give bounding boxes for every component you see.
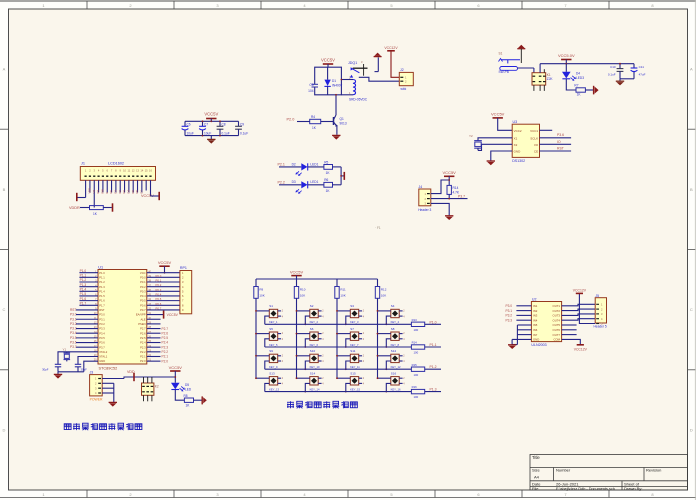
- LED D5: [171, 383, 180, 390]
- svg-text:P3.3: P3.3: [99, 327, 105, 331]
- wire: [147, 272, 180, 274]
- svg-text:KEY_8: KEY_8: [391, 343, 400, 347]
- wire: [194, 399, 202, 401]
- svg-text:P2.3: P2.3: [162, 345, 169, 349]
- wire column: [296, 298, 298, 378]
- svg-text:P2.0: P2.0: [287, 117, 295, 121]
- wire pin stubs: [378, 333, 391, 335]
- wire stub: [147, 318, 161, 320]
- svg-text:Size: Size: [532, 468, 541, 473]
- svg-text:R6: R6: [324, 178, 328, 182]
- svg-text:X1: X1: [514, 136, 518, 140]
- svg-text:D2: D2: [292, 162, 296, 166]
- capacitor C2 30pF: [75, 363, 81, 365]
- svg-text:P0.2: P0.2: [140, 285, 146, 289]
- capacitor C11 47uF: [633, 64, 635, 68]
- svg-text:R16: R16: [412, 385, 418, 389]
- wire GND: [491, 151, 512, 161]
- power bar / net VCC5V: [163, 311, 165, 319]
- svg-text:· F1: · F1: [375, 226, 381, 230]
- svg-text:JDQ1: JDQ1: [348, 61, 357, 65]
- ground: [508, 344, 516, 346]
- svg-text:P0.4: P0.4: [140, 294, 146, 298]
- svg-text:P0.7: P0.7: [156, 306, 162, 310]
- relay contact: [353, 67, 368, 69]
- svg-text:SRD-05VDC: SRD-05VDC: [349, 98, 368, 102]
- svg-text:KEY_1: KEY_1: [269, 320, 278, 324]
- svg-text:LCD1602: LCD1602: [108, 162, 124, 166]
- svg-text:P2.0: P2.0: [140, 359, 146, 363]
- wire: [102, 180, 104, 192]
- wire: [147, 286, 180, 288]
- svg-text:VCC12V: VCC12V: [574, 347, 588, 351]
- svg-text:S11: S11: [350, 349, 355, 353]
- wire: [115, 180, 117, 192]
- svg-text:P3.6: P3.6: [99, 341, 105, 345]
- svg-text:P2.4: P2.4: [140, 341, 146, 345]
- svg-text:P2.1: P2.1: [140, 355, 146, 359]
- svg-text:B: B: [690, 187, 693, 192]
- svg-text:P1.7: P1.7: [99, 303, 105, 307]
- svg-text:P3.0: P3.0: [70, 313, 77, 317]
- wire (power): [391, 51, 399, 78]
- wire: [620, 78, 634, 80]
- wire: [141, 180, 143, 192]
- svg-text:P3.1: P3.1: [506, 309, 513, 313]
- svg-text:VCC5.0V: VCC5.0V: [558, 53, 575, 58]
- svg-text:R14: R14: [453, 186, 459, 190]
- svg-text:P3.5: P3.5: [70, 336, 77, 340]
- wire pin stubs: [378, 377, 391, 379]
- capacitor C5 104: [312, 83, 319, 85]
- svg-text:Y2: Y2: [469, 134, 473, 138]
- wire: [175, 390, 184, 401]
- wire: [279, 184, 301, 186]
- svg-text:KEY_15: KEY_15: [350, 387, 360, 391]
- ground: [57, 372, 59, 374]
- wire main 5V rail: [540, 63, 634, 65]
- wire: [93, 180, 95, 192]
- svg-text:KEY_9: KEY_9: [269, 365, 278, 369]
- wire EA: [147, 314, 163, 316]
- svg-text:100: 100: [414, 351, 419, 355]
- svg-text:VCC5V: VCC5V: [167, 313, 179, 317]
- wire collector: [335, 95, 337, 115]
- wire pin stubs: [337, 333, 350, 335]
- svg-text:P2.1: P2.1: [162, 355, 169, 359]
- svg-text:C8: C8: [222, 122, 226, 126]
- svg-text:KEY_16: KEY_16: [391, 387, 401, 391]
- svg-text:OUT2: OUT2: [553, 309, 561, 313]
- capacitor C1 30pF: [55, 363, 61, 365]
- svg-text:J1: J1: [81, 162, 85, 166]
- svg-text:P1.4: P1.4: [99, 289, 105, 293]
- svg-text:26-Jun-2021: 26-Jun-2021: [556, 481, 579, 486]
- resistor R11 10K (column pull-up): [336, 279, 338, 287]
- svg-text:100: 100: [414, 373, 419, 377]
- wire pin stubs: [297, 355, 310, 357]
- wire / net label P2.7: [147, 328, 161, 330]
- svg-text:ULN2003: ULN2003: [531, 343, 546, 347]
- svg-text:X2: X2: [514, 143, 518, 147]
- svg-text:VDDR: VDDR: [69, 206, 80, 210]
- wire / net label P1.1: [425, 346, 441, 348]
- svg-text:P0.3: P0.3: [156, 288, 162, 292]
- svg-text:P3.2: P3.2: [70, 322, 77, 326]
- wire: [147, 295, 180, 297]
- svg-text:10K: 10K: [259, 293, 264, 297]
- svg-text:E:\sheji\dzsz.Ddb - Documents.: E:\sheji\dzsz.Ddb - Documents.sch: [556, 487, 615, 491]
- svg-text:P2.2: P2.2: [278, 181, 285, 185]
- svg-text:S16: S16: [391, 371, 397, 375]
- wire: [297, 121, 310, 123]
- ground: [487, 160, 495, 162]
- switch K2: [142, 383, 154, 395]
- wire stub: [147, 323, 161, 325]
- svg-text:KEY_11: KEY_11: [350, 365, 360, 369]
- wire / net label P2.3: [147, 346, 161, 348]
- svg-text:OUT5: OUT5: [553, 323, 561, 327]
- svg-text:P3.3: P3.3: [506, 318, 513, 322]
- svg-text:RST: RST: [99, 308, 105, 312]
- svg-text:OUT3: OUT3: [553, 314, 561, 318]
- svg-text:10K: 10K: [300, 293, 305, 297]
- ground (sideways): [593, 86, 595, 95]
- svg-text:Header 3: Header 3: [418, 208, 431, 212]
- svg-text:P0.0: P0.0: [140, 275, 146, 279]
- svg-text:P3.0: P3.0: [506, 304, 513, 308]
- wire: [78, 197, 86, 199]
- svg-text:P1.1: P1.1: [99, 275, 105, 279]
- svg-text:S14: S14: [310, 371, 316, 375]
- wire / net label P2.0: [147, 360, 161, 362]
- svg-text:File: File: [532, 486, 539, 491]
- resistor R9 10K (column pull-up): [255, 279, 257, 287]
- wire / net label P2.6: [147, 332, 161, 334]
- svg-text:KEY_3: KEY_3: [350, 320, 359, 324]
- svg-text:VCC1: VCC1: [530, 129, 538, 133]
- svg-text:J2: J2: [400, 68, 404, 72]
- svg-text:S6: S6: [310, 327, 314, 331]
- svg-text:KEY_10: KEY_10: [310, 365, 320, 369]
- wire: [333, 184, 342, 186]
- wire pin stubs: [337, 310, 350, 312]
- junction: [210, 120, 212, 122]
- svg-text:P1.1: P1.1: [430, 343, 437, 347]
- svg-text:P3.3: P3.3: [70, 327, 77, 331]
- svg-text:P1.6: P1.6: [99, 299, 105, 303]
- svg-text:VCC12V: VCC12V: [384, 46, 398, 50]
- svg-text:P3.7: P3.7: [70, 345, 77, 349]
- svg-text:IN6: IN6: [533, 328, 538, 332]
- svg-text:KEY_6: KEY_6: [310, 343, 319, 347]
- svg-text:Y1: Y1: [63, 348, 67, 352]
- wire pin stubs: [256, 333, 269, 335]
- svg-text:IN4: IN4: [533, 318, 538, 322]
- svg-text:P2.6: P2.6: [162, 331, 169, 335]
- svg-text:LED: LED: [185, 387, 192, 391]
- svg-text:PSEN: PSEN: [138, 322, 145, 326]
- svg-text:J4: J4: [419, 185, 423, 189]
- wire GND pin: [84, 361, 98, 372]
- wire: [308, 184, 324, 186]
- ground: [445, 215, 453, 217]
- wire: [145, 180, 147, 190]
- wire / net label P1.2: [425, 368, 441, 370]
- wire top bus: [256, 278, 378, 280]
- svg-text:P3.5: P3.5: [99, 336, 105, 340]
- svg-text:IN5: IN5: [533, 323, 538, 327]
- wire emitter: [336, 127, 338, 135]
- wire pin stubs: [378, 310, 391, 312]
- svg-text:P2.7: P2.7: [162, 327, 169, 331]
- svg-text:S10: S10: [310, 349, 316, 353]
- wire row bus 2: [265, 346, 412, 348]
- wire to row bus: [386, 339, 391, 347]
- junction: [202, 120, 204, 122]
- svg-text:KEY_13: KEY_13: [269, 387, 279, 391]
- svg-text:R4: R4: [311, 115, 315, 119]
- svg-text:S12: S12: [391, 349, 397, 353]
- svg-text:E: E: [105, 192, 109, 194]
- wire pin1: [431, 180, 449, 194]
- svg-text:I/O: I/O: [534, 143, 539, 147]
- svg-text:30pF: 30pF: [42, 368, 49, 372]
- wire: [566, 79, 576, 90]
- svg-text:P2.5: P2.5: [162, 336, 169, 340]
- caption: matrix keypad input module (Chinese): [287, 401, 294, 408]
- svg-text:IO: IO: [557, 140, 561, 144]
- svg-text:D4: D4: [126, 190, 130, 194]
- wire / net label P1.3: [425, 391, 441, 393]
- wire: [85, 180, 87, 197]
- wire: [98, 180, 100, 192]
- capacitor C10 0.1uF: [619, 64, 621, 69]
- svg-text:EA/VPP: EA/VPP: [136, 313, 146, 317]
- svg-text:P0.5: P0.5: [140, 299, 146, 303]
- wire pin stubs: [337, 355, 350, 357]
- wire: [279, 166, 301, 168]
- wire pins 2-4: [102, 382, 114, 384]
- svg-text:0.1uF: 0.1uF: [608, 73, 616, 77]
- svg-text:R9: R9: [259, 288, 263, 292]
- svg-text:D5: D5: [131, 190, 135, 194]
- wire pin stubs: [256, 377, 269, 379]
- svg-text:P2.4: P2.4: [162, 341, 169, 345]
- wire to row bus: [346, 316, 351, 324]
- svg-text:R14: R14: [412, 341, 418, 345]
- svg-text:A4: A4: [534, 475, 540, 480]
- wire: [517, 324, 531, 326]
- svg-text:D2: D2: [118, 190, 122, 194]
- svg-text:R7: R7: [574, 84, 578, 88]
- svg-text:VDD: VDD: [88, 188, 92, 194]
- svg-text:P2.0: P2.0: [162, 359, 169, 363]
- svg-text:10K: 10K: [381, 293, 386, 297]
- svg-text:VCC5V: VCC5V: [169, 365, 183, 370]
- wire to row bus: [265, 339, 270, 347]
- wire: [147, 309, 180, 311]
- svg-text:R10: R10: [300, 288, 306, 292]
- svg-text:IN3: IN3: [533, 314, 538, 318]
- svg-text:COM: COM: [553, 338, 560, 342]
- svg-text:GND: GND: [99, 359, 105, 363]
- wire top bus: [185, 120, 239, 122]
- svg-text:STC89C52: STC89C52: [99, 366, 118, 370]
- svg-text:D0: D0: [109, 190, 113, 194]
- wire / net label P2.2: [147, 351, 161, 353]
- svg-text:K2: K2: [155, 385, 159, 389]
- svg-text:U1: U1: [98, 266, 103, 270]
- power net VCC12V: [576, 292, 583, 294]
- wire pin stubs: [256, 310, 269, 312]
- wire: [89, 180, 91, 192]
- svg-text:C11: C11: [639, 65, 645, 69]
- svg-text:P3.4: P3.4: [99, 331, 105, 335]
- svg-text:D6: D6: [135, 190, 139, 194]
- wire stub: [562, 334, 577, 336]
- svg-text:XTAL2: XTAL2: [99, 350, 108, 354]
- svg-text:P3.6: P3.6: [557, 133, 564, 137]
- wire X2: [478, 144, 512, 150]
- svg-text:LED1: LED1: [310, 180, 318, 184]
- wire to row bus: [305, 339, 310, 347]
- wire column: [377, 298, 379, 378]
- power net VCC12V: [577, 344, 584, 346]
- svg-text:R5: R5: [324, 160, 328, 164]
- svg-text:P1.0: P1.0: [430, 320, 437, 324]
- resistor R12 10K (column pull-up): [377, 279, 379, 287]
- caption: MCU minimum system circuit (Chinese): [64, 424, 71, 430]
- wire to row bus: [346, 339, 351, 347]
- svg-text:104: 104: [308, 89, 314, 93]
- ground: [619, 79, 621, 81]
- svg-text:GND: GND: [514, 150, 522, 154]
- svg-text:P2.2: P2.2: [140, 350, 146, 354]
- resistor R14 100: [411, 345, 424, 349]
- power bar: [343, 172, 345, 180]
- svg-text:C5: C5: [309, 83, 313, 87]
- diode D1 IN4007: [327, 67, 329, 79]
- capacitor C9: [238, 121, 240, 126]
- wire stub: [341, 175, 344, 177]
- wire join: [340, 167, 342, 185]
- wire: [128, 180, 130, 192]
- wire: [80, 207, 90, 209]
- svg-text:P1.5: P1.5: [99, 294, 105, 298]
- wire pin stubs: [256, 355, 269, 357]
- svg-text:P3.2: P3.2: [99, 322, 105, 326]
- wire to row bus: [386, 361, 391, 369]
- svg-text:RST: RST: [557, 147, 564, 151]
- svg-text:OUT6: OUT6: [553, 328, 561, 332]
- resistor R5 1K: [324, 165, 333, 170]
- svg-text:GND: GND: [533, 338, 539, 342]
- wire: [147, 290, 180, 292]
- wire: [498, 118, 513, 130]
- svg-text:POWER: POWER: [90, 398, 103, 402]
- resistor R13 100: [411, 322, 424, 326]
- svg-text:P2.6: P2.6: [140, 331, 146, 335]
- svg-text:P0.6: P0.6: [140, 303, 146, 307]
- wire to row bus: [346, 361, 351, 369]
- svg-text:P1.3: P1.3: [430, 388, 437, 392]
- wire tie unused inputs: [516, 325, 518, 345]
- resistor R3 1K: [90, 206, 104, 210]
- resistor R15 100: [411, 367, 424, 371]
- svg-text:P0.1: P0.1: [140, 280, 146, 284]
- wire: [333, 166, 342, 168]
- svg-text:C: C: [690, 307, 693, 312]
- svg-text:RP1: RP1: [180, 266, 187, 270]
- wire: [147, 281, 180, 283]
- svg-text:P1.0: P1.0: [99, 271, 105, 275]
- wire pin stubs: [297, 333, 310, 335]
- wire output: [562, 319, 596, 321]
- wire to ground: [377, 57, 379, 71]
- svg-text:VCC5V: VCC5V: [443, 170, 457, 175]
- svg-text:KEY_12: KEY_12: [391, 365, 401, 369]
- svg-text:P3.0: P3.0: [99, 313, 105, 317]
- svg-text:RST: RST: [70, 308, 76, 312]
- wire / net label P2.5: [147, 337, 161, 339]
- switch K1: [532, 73, 546, 85]
- wire XTAL2: [58, 352, 98, 364]
- svg-text:P0.1: P0.1: [156, 279, 162, 283]
- wire output: [562, 309, 596, 311]
- svg-text:OUT4: OUT4: [553, 318, 561, 322]
- wire: [106, 180, 108, 192]
- svg-text:0.1uF: 0.1uF: [222, 131, 230, 135]
- svg-text:LED1: LED1: [310, 162, 318, 166]
- wire: [93, 193, 95, 208]
- svg-text:J3: J3: [90, 371, 94, 375]
- wire: [517, 329, 531, 331]
- wire XTAL1: [78, 356, 98, 364]
- wire bottom bus: [185, 135, 239, 137]
- wire: [539, 64, 541, 73]
- svg-text:SCLK: SCLK: [530, 136, 538, 140]
- wire to row bus: [265, 361, 270, 369]
- wire to row bus: [386, 316, 391, 324]
- wire / net label P2.1: [147, 355, 161, 357]
- svg-text:VCC5V: VCC5V: [204, 112, 218, 117]
- svg-text:IN7: IN7: [533, 333, 538, 337]
- svg-text:P0.3: P0.3: [140, 289, 146, 293]
- svg-text:P2.5: P2.5: [140, 336, 146, 340]
- svg-text:Number: Number: [556, 468, 571, 473]
- wire: [517, 334, 531, 336]
- wire to row bus: [265, 316, 270, 324]
- svg-text:10uF: 10uF: [187, 131, 194, 135]
- svg-text:47uF: 47uF: [639, 73, 646, 77]
- svg-text:R15: R15: [412, 363, 418, 367]
- svg-text:KEY_5: KEY_5: [269, 343, 278, 347]
- svg-text:Revision: Revision: [646, 468, 661, 473]
- svg-text:KEY_7: KEY_7: [350, 343, 359, 347]
- svg-text:VCC5V: VCC5V: [491, 112, 505, 117]
- LED D4: [565, 64, 567, 72]
- svg-text:D3: D3: [122, 190, 126, 194]
- svg-text:P3.1: P3.1: [99, 317, 105, 321]
- wire / net label P2.4: [147, 342, 161, 344]
- wire pin stubs: [297, 377, 310, 379]
- svg-text:R13: R13: [412, 318, 418, 322]
- svg-text:CE: CE: [534, 150, 538, 154]
- wire pin stubs: [378, 355, 391, 357]
- wire COM to VCC12V: [562, 339, 581, 344]
- svg-text:S15: S15: [350, 371, 356, 375]
